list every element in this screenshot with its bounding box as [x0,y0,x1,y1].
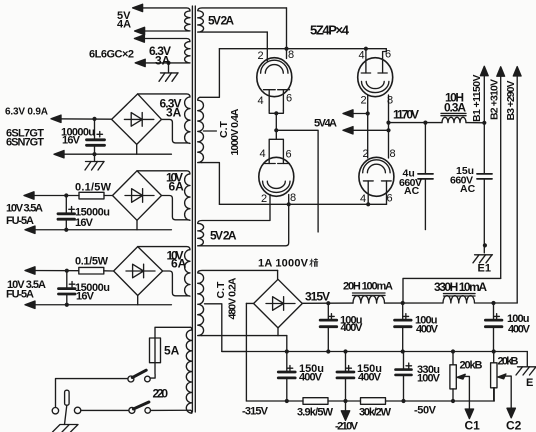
svg-text:16V: 16V [75,217,94,229]
junction dot V4 plate [366,202,370,206]
capacitor 150u 400V #2 [337,352,354,402]
ground symbol below S2 [159,63,178,81]
rail bottom segment 2 [328,400,361,402]
svg-text:C.T: C.T [215,281,227,299]
junction dot 150u1 bottom [285,399,289,403]
svg-text:0.3A: 0.3A [444,101,466,115]
junction dot 5V4A lower [386,128,390,132]
glyph qiao (bridge) [310,258,319,267]
capacitor 15000u 16V (B) [58,196,75,230]
svg-text:6: 6 [387,193,393,205]
svg-text:220: 220 [153,387,169,401]
wire V2 pin2 down to V4 pin2 [367,95,369,158]
resistor 0.1/5W (C) [79,267,104,274]
svg-text:0.1/5W: 0.1/5W [75,182,112,194]
primary winding 220V [186,327,192,413]
svg-text:480V 0.2A: 480V 0.2A [227,277,239,319]
terminal arrow S3 output low [54,151,64,158]
svg-text:8: 8 [387,95,393,107]
winding S5 10V 6A (bridge C) [138,247,190,297]
svg-text:E: E [526,377,533,389]
svg-text:6SN7GT: 6SN7GT [6,137,44,149]
bias bridge left vertex riser [245,303,247,401]
svg-text:5Z4P×4: 5Z4P×4 [310,23,350,38]
junction dot after 330H [491,301,495,305]
svg-text:C1: C1 [465,419,481,432]
resistor 0.1/5W (B) [79,192,104,199]
svg-text:5V 2A: 5V 2A [210,229,237,243]
wire col1 junction to dangling drop [276,130,318,232]
wire V2 pin8 down to V4 pin8 [388,95,390,158]
junction dot C bottom [65,303,69,307]
junction dot after 20H [401,301,405,305]
winding S4 10V 6A (bridge B) [137,171,190,221]
svg-text:6: 6 [286,93,292,105]
terminal arrow S2 top [134,35,144,42]
choke 10H 0.3A [441,113,466,122]
AC plug symbol [53,390,79,432]
capacitor 10000u 16V [87,119,105,154]
svg-text:330H 10mA: 330H 10mA [434,280,487,294]
terminal arrow 10V 3.5A (B) [24,192,34,199]
bridge rectifier C (10V 6A) [114,247,163,296]
junction dot V2 plate wire [364,47,368,51]
svg-text:4: 4 [359,50,365,62]
terminal arrow S5 output low [25,301,35,308]
winding 5V 2A upper right [198,8,287,32]
junction dot V3 pin8 on HV bottom wire [287,202,291,206]
junction dot S2 ground [166,61,170,65]
ground symbol bridge A [85,154,104,170]
svg-text:5A: 5A [164,344,180,358]
rail mid (-50V feed) [222,351,528,353]
svg-text:10V 3.5A: 10V 3.5A [6,203,43,215]
svg-text:400V: 400V [299,372,323,384]
junction dot pot1 bottom [451,399,455,403]
svg-text:B3 +290V: B3 +290V [505,81,517,121]
resistor 3.9k/5W [303,398,328,405]
winding 480V 0.2A C-T [198,270,278,335]
bridge C bottom vertex stub [137,296,139,305]
capacitor 100u 400V #3 [485,303,502,352]
wire 1170V to choke [389,122,443,124]
svg-text:2: 2 [361,95,367,107]
switch bottom contact circles [129,407,135,413]
svg-text:8: 8 [290,192,296,204]
wire resistor B to bridge [104,195,113,197]
capacitor 15000u 16V (C) [59,271,76,305]
junction dot V1-V3 mid [274,128,278,132]
pot2 wiper arrow and C2 output [498,374,516,418]
HV plate wire top (to tube plates) [219,48,386,50]
junction dot 4u cap top [423,121,427,125]
svg-text:-50V: -50V [414,405,437,417]
svg-text:400V: 400V [341,322,364,334]
capacitor 100u 400V #2 [395,303,412,352]
wire choke to B1 [466,122,484,124]
terminal arrow 5V4A filament top [343,110,353,117]
wire bridge A left vertex to arrow [52,118,112,120]
B2 output line and arrow [403,67,505,303]
junction dot V1 pin8 [284,47,288,51]
wire 5V2A bottom to tube V1 pin2 [266,32,268,61]
svg-text:-315V: -315V [242,406,269,418]
bridge B bottom vertex stub [136,220,138,229]
bridge A bottom vertex stub [136,144,138,154]
wire bridge A bottom rail [55,153,172,155]
terminal arrow 5V4A filament bottom [343,127,353,134]
svg-text:8: 8 [288,49,294,61]
svg-text:16V: 16V [76,291,95,303]
junction dot E1 [483,243,487,247]
HV plate wire bottom (to tube plates) [219,203,386,205]
winding S1 5V 4A with wires [133,8,190,31]
wire plug left to switch top [56,379,128,408]
wire switch bottom to primary [151,409,191,411]
svg-text:20kB: 20kB [498,356,519,368]
choke 20H 100mA [353,293,386,303]
svg-text:20H 100mA: 20H 100mA [343,281,393,293]
480V bottom wire [202,335,287,337]
junction dot 10000u top [92,117,96,121]
transformer T1 core [192,6,195,412]
rail bottom segment 3 [386,400,495,402]
rectifier tube V2 (5Z4P) [358,49,393,97]
terminal arrow 5V4A bottom [135,27,145,34]
junction dot B1 [482,121,486,125]
svg-text:FU-5A: FU-5A [6,289,34,301]
junction dot ground A [92,152,96,156]
junction dot 1170V node [386,121,390,125]
junction dot 5V4A upper [366,111,370,115]
terminal arrow S2 bottom [135,59,145,66]
svg-text:1170V: 1170V [393,108,419,122]
svg-text:5V 2A: 5V 2A [208,14,234,28]
svg-text:5V4A: 5V4A [314,118,337,130]
svg-text:3A: 3A [155,54,171,68]
480V winding top to bias bridge [277,270,279,279]
B1 output line and arrow [480,66,488,123]
svg-text:2: 2 [258,50,264,62]
svg-text:2: 2 [363,148,369,160]
rectifier tube V3 (5Z4P) [259,130,294,196]
switch bottom blade [133,402,149,409]
ground symbol E [516,367,536,375]
rectifier tube V1 (5Z4P) [257,58,292,114]
svg-text:1000V 0.4A: 1000V 0.4A [229,108,241,155]
-210V output arrow [341,401,349,420]
winding HV 1000V 0.4A C-T [198,97,204,162]
junction dot 315V [326,301,330,305]
HV center tap stub [204,130,217,132]
svg-text:C2: C2 [506,419,522,432]
bridge rectifier D 1A 1000V [254,279,303,328]
wire 5V4A upper arrow [344,113,368,115]
wire 5V4A lower arrow [344,129,389,131]
rectifier tube V4 (5Z4P) [359,157,394,204]
wire resistor C to bridge [104,270,114,272]
svg-text:3A: 3A [166,106,182,120]
junction dot 15000u B top [64,193,68,197]
capacitor 15u 660V AC on B1 line [477,123,492,253]
svg-text:400V: 400V [508,324,531,336]
capacitor 4u 660V AC [418,123,433,230]
junction dot B bottom [64,228,68,232]
pot1 wiper arrow and C1 output [457,374,473,418]
svg-text:16V: 16V [62,135,81,147]
svg-text:400V: 400V [416,324,439,336]
plug terminal circles [52,408,58,414]
HV winding top end riser [200,49,220,98]
junction dot -210V [343,399,347,403]
svg-text:-210V: -210V [335,421,359,432]
capacitor 100u 400V #1 [320,303,337,351]
B3 output line and arrow [513,67,521,303]
terminal arrow 10V 3.5A (C) [25,267,35,274]
svg-text:8: 8 [390,148,396,160]
svg-text:30k/2W: 30k/2W [359,407,392,419]
wire 5V2A top to tube V1 pin8 [286,8,288,59]
fuse 5A [150,327,191,378]
wire arrow to resistor C [26,270,79,272]
wire arrow to resistor B [25,195,80,197]
svg-text:315V: 315V [305,290,330,304]
svg-text:B1 +1150V: B1 +1150V [471,75,483,123]
bias bridge bottom vertex stub [277,328,279,336]
capacitor 330u 100V [396,352,412,402]
svg-text:AC: AC [460,183,476,195]
svg-text:4: 4 [360,193,366,205]
switch top blade [132,370,146,377]
svg-text:B2 +310V: B2 +310V [489,79,501,120]
bridge rectifier B (10V 6A) [113,171,162,221]
terminal arrow 6.3V 0.9A [51,115,61,122]
riser -315V column [286,336,288,352]
svg-text:6A: 6A [169,180,185,194]
pot2 bottom corner [493,388,495,401]
ground symbol E1 [473,255,492,263]
480V center tap path [205,304,247,352]
svg-text:0.1/5W: 0.1/5W [75,256,109,268]
svg-text:3.9k/5W: 3.9k/5W [297,407,334,419]
svg-text:400V: 400V [358,372,382,384]
wire mid rail to ground E [526,352,528,367]
junction dot 15000u C top [65,269,69,273]
wire V3 pin2 to 5V2A-2 [198,195,289,246]
svg-text:6: 6 [286,149,292,161]
svg-text:6.3V 0.9A: 6.3V 0.9A [5,107,48,118]
svg-text:FU-5A: FU-5A [6,215,34,227]
wire riser to left vertex [246,302,253,304]
pin labels V1 [258,49,396,206]
svg-text:E1: E1 [478,263,491,275]
wire plug right to switch bottom [81,409,129,411]
wire 315V rail with chokes [302,302,517,304]
choke 330H 10mA [443,294,475,303]
HV winding bottom end riser [202,163,220,205]
bridge rectifier A (6.3V 3A) [112,94,162,144]
svg-text:6: 6 [385,49,391,61]
switch top contact circles [128,376,134,382]
resistor 30k/2W [361,398,386,405]
winding S3 6.3V 3A (bridge A) [138,94,190,143]
svg-text:100V: 100V [417,373,441,385]
svg-text:6L6GC×2: 6L6GC×2 [89,49,134,61]
junction dot 330u bottom [401,399,405,403]
svg-text:6A: 6A [171,257,187,271]
wire V1 plates to V3 plates [275,113,277,130]
junction dots on mid rail [285,349,289,353]
potentiometer 20kB #1 [450,352,456,402]
capacitor 150u 400V #1 [278,352,295,402]
svg-text:AC: AC [404,185,420,197]
winding S2 6.3V 3A with wires [135,39,190,63]
junction dot V1 plates [274,111,278,115]
terminal arrow 5V4A top [133,4,143,11]
wire bridge C bottom rail [26,304,172,306]
svg-text:20kB: 20kB [460,360,483,372]
potentiometer 20kB #2 [491,352,497,402]
wire bridge B bottom rail [26,229,172,231]
terminal arrow S4 output low [25,226,35,233]
svg-text:4: 4 [260,148,266,160]
rail bottom -315V [246,400,303,402]
svg-text:4A: 4A [117,19,131,31]
svg-text:1A 1000V: 1A 1000V [258,258,309,270]
svg-text:4: 4 [258,95,264,107]
svg-text:2: 2 [261,193,267,205]
